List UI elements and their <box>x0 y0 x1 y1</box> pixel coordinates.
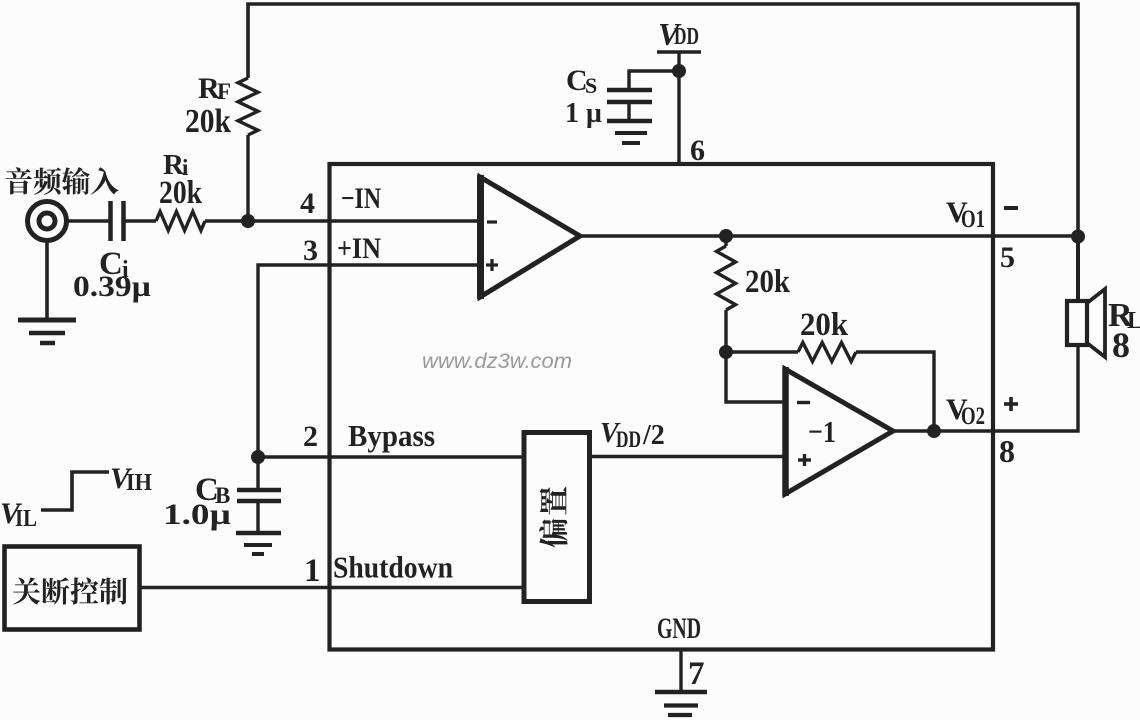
label V01 <box>946 196 985 233</box>
wire VDD to pin 6 <box>677 52 680 164</box>
wire node to R3 <box>726 350 798 353</box>
capacitor CB <box>237 490 281 501</box>
svg-text:8: 8 <box>1112 325 1130 365</box>
wire +IN pin 3 to U1 <box>258 265 480 457</box>
svg-text:/2: /2 <box>642 420 665 451</box>
svg-text:IL: IL <box>15 506 37 532</box>
node feedback junction <box>719 345 733 359</box>
label plus polarity at V02 <box>1004 397 1018 411</box>
resistor Ri <box>156 212 205 231</box>
wire feedback loop: RF top, across top, down right rail <box>248 4 1078 236</box>
label CB <box>195 472 230 508</box>
label CS <box>566 64 597 98</box>
svg-text:2: 2 <box>303 420 318 453</box>
U1 plus input mark <box>486 259 498 271</box>
wire feedback node to U2 minus input <box>726 352 785 402</box>
node VDD/CS junction <box>672 64 686 78</box>
U2 plus input mark <box>798 454 811 466</box>
wire V01 rail to speaker <box>1076 236 1080 301</box>
svg-text:1: 1 <box>304 553 321 589</box>
wire Bypass pin 2 to bias box <box>258 455 524 458</box>
svg-text:8: 8 <box>999 433 1015 469</box>
wire jack to Ci <box>67 219 110 222</box>
node Bypass/CB junction <box>251 450 265 464</box>
node V01/R2 junction <box>719 229 733 243</box>
wire jack to ground <box>45 241 49 321</box>
svg-text:O2: O2 <box>961 403 985 430</box>
label 偏置 (bias) rotated <box>539 487 568 548</box>
node V01 right rail junction <box>1071 230 1085 244</box>
svg-text:IH: IH <box>126 470 152 496</box>
ground (input jack) <box>18 320 76 343</box>
svg-text:DD: DD <box>616 427 641 452</box>
node input junction (RF/Ri/-IN) <box>241 214 255 228</box>
bias block box <box>524 433 590 602</box>
label 关断控制 text <box>13 577 127 604</box>
wire Bypass node to CB <box>256 457 259 490</box>
resistor R2 20k <box>717 246 736 310</box>
wire V02 to speaker rail <box>993 345 1078 431</box>
U2 minus input mark <box>797 401 810 404</box>
label RF <box>198 72 231 105</box>
svg-text:0.39µ: 0.39µ <box>73 270 151 303</box>
svg-text:20k: 20k <box>185 103 231 140</box>
wire Ci to Ri <box>125 219 156 222</box>
control box 关断控制 (shutdown control) <box>5 547 140 630</box>
wire R2 to feedback node <box>724 310 727 352</box>
wire RF to input node <box>246 135 249 221</box>
label VIL <box>0 497 37 532</box>
wire CB to ground <box>256 501 259 533</box>
capacitor CS <box>607 90 652 102</box>
label VIH <box>110 462 152 496</box>
svg-text:GND: GND <box>657 612 701 645</box>
svg-text:F: F <box>217 79 231 104</box>
label Ci <box>99 246 129 283</box>
svg-text:O1: O1 <box>961 206 985 233</box>
label 音频输入 (audio input) <box>5 167 118 195</box>
svg-text:3: 3 <box>303 234 318 267</box>
op-amp U1 <box>480 177 580 297</box>
label minus polarity at V01 <box>1004 206 1018 210</box>
wire R3 to V02 node <box>856 352 934 431</box>
svg-text:www.dz3w.com: www.dz3w.com <box>422 350 572 373</box>
ground (CS) <box>607 121 652 143</box>
svg-text:5: 5 <box>1000 241 1015 274</box>
label RL <box>1108 297 1140 334</box>
svg-text:S: S <box>585 73 597 98</box>
wire shutdown control to pin 1 <box>139 586 524 589</box>
svg-text:−1: −1 <box>808 414 836 449</box>
svg-text:Shutdown: Shutdown <box>333 550 453 585</box>
speaker RL <box>1067 289 1105 357</box>
svg-text:20k: 20k <box>159 175 203 211</box>
label Ri <box>163 149 189 181</box>
svg-text:+IN: +IN <box>337 232 381 265</box>
wire bias box to U2 plus input <box>589 455 785 458</box>
svg-text:DD: DD <box>674 24 699 50</box>
svg-text:20k: 20k <box>745 264 791 300</box>
wire pin 7 to ground <box>679 650 682 693</box>
U1 minus input mark <box>487 220 497 223</box>
wire U1 output to right rail (V01 net) <box>580 234 1078 238</box>
svg-text:1 µ: 1 µ <box>565 98 602 129</box>
capacitor Ci <box>111 201 124 241</box>
svg-text:20k: 20k <box>800 307 849 343</box>
wire V01 to R2 <box>724 236 727 246</box>
svg-text:Bypass: Bypass <box>348 418 435 453</box>
wire U2 output to pin 8 <box>893 429 993 432</box>
svg-text:4: 4 <box>300 187 315 220</box>
label V02 <box>946 393 985 430</box>
wire CS to ground <box>627 102 630 121</box>
IC package box <box>330 164 994 650</box>
ground (CB) <box>236 533 281 554</box>
waveform VIL/VIH step <box>41 472 109 510</box>
node V02 junction <box>927 424 941 438</box>
svg-text:7: 7 <box>688 656 705 692</box>
wire VDD node to CS <box>629 71 679 90</box>
wire Ri to -IN pin 4 <box>205 219 480 222</box>
resistor RF <box>238 78 258 135</box>
label VDD <box>658 16 699 52</box>
ground (pin 7) <box>655 692 707 715</box>
svg-text:1.0µ: 1.0µ <box>163 498 231 531</box>
label VDD/2 <box>600 418 665 452</box>
resistor R3 20k <box>798 343 856 362</box>
power VDD symbol bar <box>657 50 701 54</box>
op-amp U2 (inverter -1) <box>785 369 893 494</box>
connector J1 audio input jack <box>28 202 67 241</box>
svg-text:6: 6 <box>690 134 705 167</box>
svg-text:−IN: −IN <box>341 182 381 215</box>
